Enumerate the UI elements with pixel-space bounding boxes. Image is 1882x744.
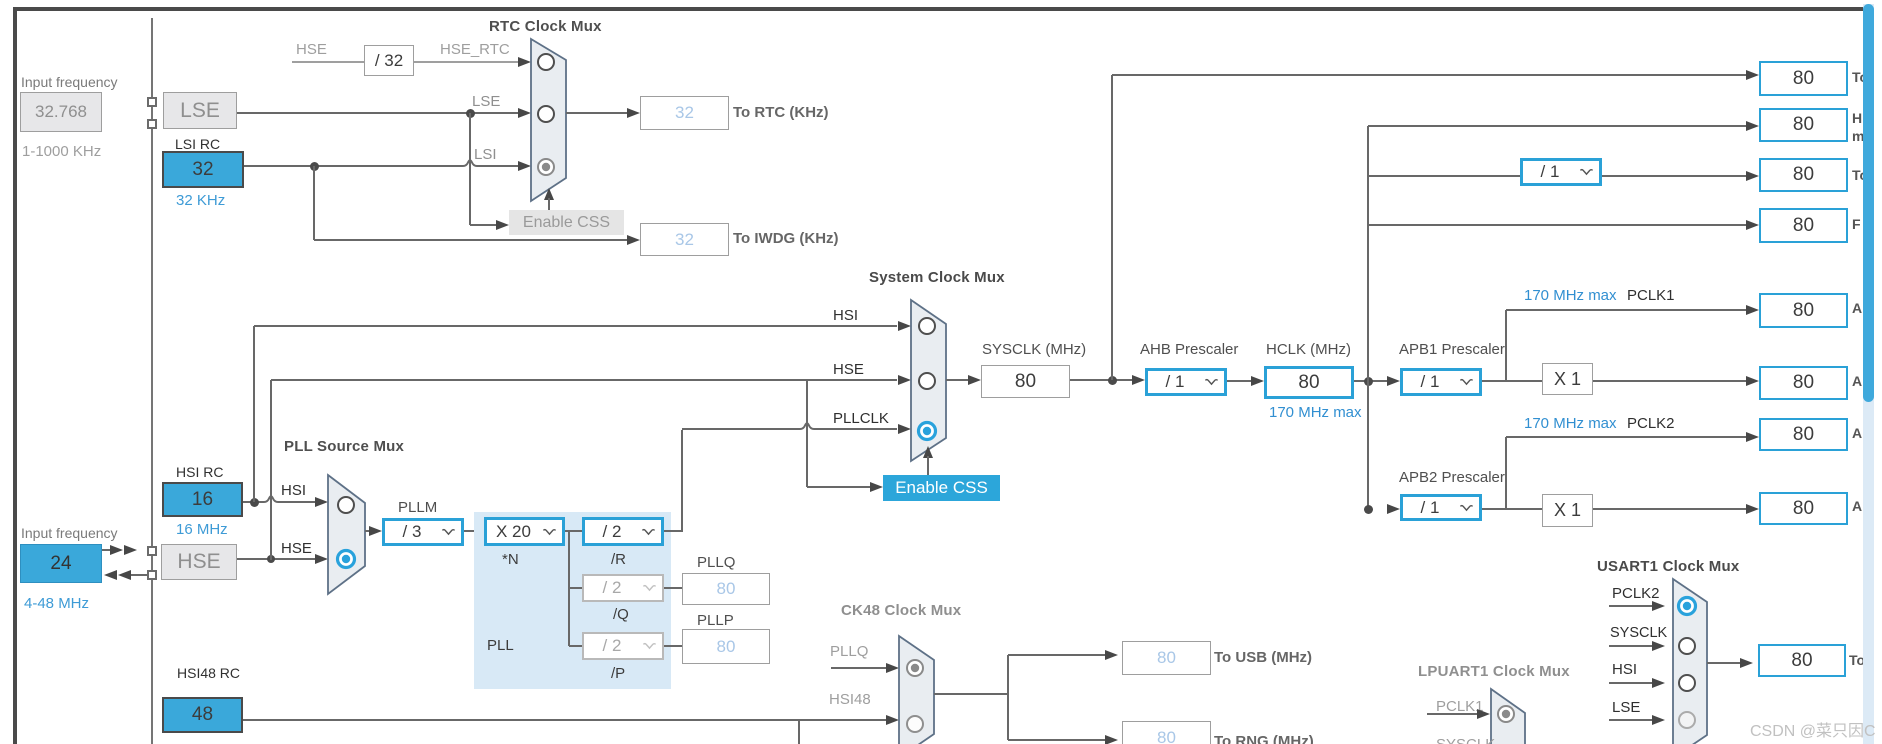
- wire PLLM to X20: [464, 530, 484, 532]
- wire /Q to PLLQ box: [664, 587, 682, 589]
- wire HSI out (right of hop): [278, 501, 316, 503]
- title RTC Clock Mux: [489, 18, 602, 35]
- wire pll mux out: [365, 530, 372, 532]
- arrowhead apb2 timer: [1746, 504, 1759, 514]
- label 1-1000 KHz: [22, 143, 101, 160]
- label usart truncated To: [1849, 652, 1865, 668]
- arrowhead HSI into usart mux: [1652, 678, 1665, 688]
- wire to RNG: [1008, 739, 1106, 741]
- arrowhead LSE into rtc mux: [518, 108, 531, 118]
- label Input frequency (HSE): [21, 525, 118, 541]
- wire AHB to HCLK: [1227, 380, 1252, 382]
- arrowhead HSI into pll mux: [315, 497, 328, 507]
- title CK48 Clock Mux: [841, 602, 961, 619]
- wire row3 left: [1368, 175, 1520, 177]
- arrowhead row3: [1746, 171, 1759, 181]
- arrowhead HSI into sys mux: [898, 321, 911, 331]
- arrowhead into APB1 prescaler: [1387, 376, 1400, 386]
- wire APB1 out: [1482, 380, 1542, 382]
- arrowhead enable css to sys mux: [923, 446, 933, 458]
- APB1 prescaler dropdown /1: [1400, 368, 1482, 396]
- label HSI48 ck48: [829, 691, 871, 708]
- connector square LSE b: [147, 119, 157, 129]
- To RTC value box: [640, 96, 729, 130]
- arrowhead PCLK2: [1746, 432, 1759, 442]
- arrowhead into USB box: [1105, 650, 1118, 660]
- PLLR dropdown /2: [582, 517, 664, 546]
- hop LSI over LSE branch: [463, 158, 477, 167]
- scrollbar track: [1863, 4, 1874, 744]
- wire SYSCLK out: [1070, 379, 1137, 381]
- label 170 MHz max pclk2: [1524, 415, 1617, 432]
- wire HSI48 branch down: [798, 720, 800, 744]
- LPUART1 clock mux shape: [1489, 687, 1527, 744]
- wire LSI to rtc mux (left of hop): [244, 165, 463, 167]
- label PLLQ ck48: [830, 643, 868, 660]
- arrowhead HSE into sys mux: [898, 375, 911, 385]
- label PLLP: [697, 612, 734, 629]
- arrowhead LSI into rtc mux: [518, 161, 531, 171]
- label /P: [611, 665, 625, 682]
- X1 box apb1 timer: [1542, 363, 1593, 395]
- arrowhead into PLLM: [369, 526, 382, 536]
- To USB value box: [1122, 641, 1211, 675]
- arrowhead into RNG box: [1105, 735, 1118, 744]
- divider /32 box: [364, 45, 414, 76]
- connector square HSE a: [147, 546, 157, 556]
- wire LSE branch to enable css: [470, 224, 501, 226]
- row3 value box: [1759, 158, 1848, 192]
- input frequency box 32.768: [20, 92, 102, 132]
- wire div32 to rtc mux: [414, 61, 519, 63]
- wire HSI48 to ck48 mux: [243, 719, 887, 721]
- wire X1 out apb2: [1593, 508, 1747, 510]
- label row4 truncated: [1852, 216, 1861, 232]
- double arrow right 2: [124, 545, 137, 555]
- label HSI wire pll: [281, 482, 306, 499]
- wire to enable css: [807, 486, 871, 488]
- APB1 timer value box: [1759, 366, 1848, 400]
- arrowhead into HCLK box: [1251, 376, 1264, 386]
- wire HCLK vertical: [1367, 126, 1369, 510]
- label apb1 timer truncated: [1852, 373, 1862, 389]
- label apb2 timer truncated: [1852, 498, 1862, 514]
- APB2 timer value box: [1759, 492, 1848, 525]
- wire SYSCLK up: [1111, 75, 1113, 380]
- label /R: [611, 551, 626, 568]
- wire HSE branch to enable css: [806, 380, 808, 487]
- wire LSI to rtc mux (right of hop): [477, 165, 519, 167]
- label row3 truncated: [1852, 167, 1868, 183]
- AHB prescaler dropdown /1: [1145, 368, 1227, 396]
- wire row4: [1368, 224, 1747, 226]
- title USART1 Clock Mux: [1597, 558, 1739, 575]
- label *N: [502, 551, 519, 568]
- wire 24 to HSE: [102, 549, 112, 551]
- label LSI wire: [474, 146, 497, 163]
- wire ck48 out: [934, 693, 1008, 695]
- wire sys mux out: [946, 379, 969, 381]
- wire to USB: [1008, 654, 1106, 656]
- label To RNG (MHz): [1214, 733, 1314, 744]
- wire LSE stub: [1609, 719, 1653, 721]
- canvas left border: [13, 7, 17, 744]
- label AHB Prescaler: [1140, 341, 1238, 358]
- label apb1 truncated: [1852, 300, 1862, 316]
- enable CSS active box: [883, 475, 1000, 501]
- label PLLQ: [697, 554, 735, 571]
- label HSI48 RC: [177, 665, 240, 681]
- To IWDG value box: [640, 223, 729, 256]
- APB2 prescaler dropdown /1: [1400, 494, 1482, 521]
- junction HSI: [250, 498, 259, 507]
- wire top row1: [1112, 74, 1747, 76]
- wire HSE to sys mux: [271, 379, 897, 381]
- wire LSE branch down: [469, 113, 471, 225]
- junction LSI: [310, 162, 319, 171]
- LSE source box: [163, 92, 237, 129]
- PLLP dropdown /2 (disabled): [582, 632, 664, 660]
- label 16 MHz: [176, 521, 228, 538]
- wire branch to /Q: [569, 587, 582, 589]
- row1 value box: [1759, 61, 1848, 96]
- PLLQ value box: [682, 573, 770, 605]
- wire rtc mux out: [566, 112, 628, 114]
- junction SYSCLK: [1108, 376, 1117, 385]
- label HSI RC: [176, 464, 223, 480]
- PCLK1 value box: [1759, 293, 1848, 328]
- arrowhead into SYSCLK box: [968, 375, 981, 385]
- arrowhead PLLCLK into sys mux: [898, 424, 911, 434]
- label PCLK1: [1627, 287, 1675, 304]
- wire PCLK1 stub lpuart: [1427, 713, 1478, 715]
- label HSE_RTC: [440, 41, 510, 58]
- HSI48 RC box 48: [162, 697, 243, 733]
- label To IWDG (KHz): [733, 230, 839, 247]
- connector square HSE b: [147, 570, 157, 580]
- wire PLLQ stub: [831, 667, 887, 669]
- label row1 truncated: [1852, 69, 1868, 85]
- junction LSE: [466, 109, 475, 118]
- hop PLLCLK over enable css branch: [800, 421, 814, 430]
- wire SYSCLK stub: [1609, 645, 1653, 647]
- label row2 truncated a: [1852, 110, 1862, 126]
- HSI RC box 16: [162, 482, 243, 517]
- wire HSE back to 24: [131, 574, 147, 576]
- HCLK value box: [1264, 366, 1354, 399]
- title LPUART1 Clock Mux: [1418, 663, 1570, 680]
- label HSI sys: [833, 307, 858, 324]
- label HSE (rtc path): [296, 41, 327, 58]
- label PLLM: [398, 499, 437, 516]
- arrowhead PCLK1: [1746, 305, 1759, 315]
- wire LSE to rtc mux: [237, 112, 519, 114]
- arrowhead row2: [1746, 121, 1759, 131]
- watermark CSDN: [1750, 717, 1876, 741]
- wire PCLK2 row: [1506, 436, 1747, 438]
- label HSE sys: [833, 361, 864, 378]
- wire HSE to div32: [292, 61, 364, 63]
- arrowhead apb1 timer: [1746, 376, 1759, 386]
- wire row3 right: [1602, 175, 1747, 177]
- PCLK2 value box: [1759, 418, 1848, 451]
- wire PLLCLK to sys mux (left of hop): [682, 428, 800, 430]
- wire PLLCLK to sys mux (right of hop): [814, 428, 897, 430]
- arrowhead PCLK1 into lpuart mux: [1477, 709, 1490, 719]
- junction HSE: [267, 555, 275, 563]
- PLLM dropdown /3: [382, 518, 464, 546]
- arrowhead LSE into usart mux: [1652, 715, 1665, 725]
- label HCLK (MHz): [1266, 341, 1351, 358]
- wire X20 to /R: [565, 530, 582, 532]
- wire HSI out (left of hop): [243, 501, 264, 503]
- arrowhead PLLQ into ck48: [886, 663, 899, 673]
- arrowhead SYSCLK into usart mux: [1652, 641, 1665, 651]
- double arrow left 2: [118, 570, 131, 580]
- label LSI RC: [175, 136, 220, 152]
- arrowhead HSE_RTC: [518, 57, 531, 67]
- arrowhead PCLK2 into usart mux: [1652, 601, 1665, 611]
- PLL region panel: [474, 512, 671, 689]
- label HSE wire pll: [281, 540, 312, 557]
- wire enable css up: [927, 456, 929, 475]
- label To USB (MHz): [1214, 649, 1312, 666]
- arrowhead HSE into pll mux: [315, 554, 328, 564]
- arrowhead enable css to rtc mux: [544, 188, 554, 200]
- scrollbar thumb: [1863, 4, 1874, 402]
- wire /R out: [664, 530, 683, 532]
- arrowhead into AHB prescaler: [1132, 375, 1145, 385]
- row2 value box: [1759, 108, 1848, 142]
- SYSCLK value box: [981, 365, 1070, 398]
- wire LSI to IWDG: [314, 239, 628, 241]
- label PCLK2: [1627, 415, 1675, 432]
- label 4-48 MHz: [24, 595, 89, 612]
- PLLN dropdown X20: [484, 517, 565, 546]
- label /Q: [613, 606, 629, 623]
- arrowhead into enable css rtc: [496, 220, 509, 230]
- title PLL Source Mux: [284, 438, 404, 455]
- arrowhead into enable css: [870, 482, 883, 492]
- label To RTC (KHz): [733, 104, 829, 121]
- arrowhead into IWDG box: [627, 235, 640, 245]
- label APB2 Prescaler: [1399, 469, 1505, 486]
- X1 box apb2 timer: [1542, 494, 1593, 527]
- input frequency box 24: [20, 544, 102, 583]
- label PLL: [487, 637, 514, 654]
- PLL source mux shape: [326, 473, 367, 596]
- label APB1 Prescaler: [1399, 341, 1505, 358]
- arrowhead row4: [1746, 220, 1759, 230]
- arrowhead row1: [1746, 70, 1759, 80]
- row4 value box: [1759, 208, 1848, 243]
- label 170 MHz max hclk: [1269, 404, 1362, 421]
- label pclk2 truncated: [1852, 425, 1862, 441]
- double arrow right 1: [110, 545, 123, 555]
- wire PCLK1 branch up: [1505, 310, 1507, 381]
- label PCLK2 usart: [1612, 585, 1660, 602]
- label 170 MHz max pclk1: [1524, 287, 1617, 304]
- wire HSI stub: [1609, 682, 1653, 684]
- enable CSS rtc (disabled): [509, 210, 624, 235]
- CK48 clock mux shape: [897, 634, 936, 744]
- wire LSI branch down: [313, 166, 315, 240]
- wire branch to /P: [569, 645, 582, 647]
- wire PLLCLK up: [681, 430, 683, 531]
- wire PCLK1 row: [1506, 309, 1747, 311]
- LSI RC box 32: [162, 151, 244, 188]
- label LSE usart: [1612, 699, 1640, 716]
- title System Clock Mux: [869, 269, 1005, 286]
- wire N to PQ branch: [568, 531, 570, 646]
- wire HSE out: [237, 558, 316, 560]
- arrowhead into usart value box: [1740, 658, 1753, 668]
- PLLP value box: [682, 629, 770, 664]
- connector square LSE a: [147, 97, 157, 107]
- wire X1 out apb1: [1593, 380, 1747, 382]
- wire ck48 split: [1007, 655, 1009, 740]
- double arrow left 1: [104, 570, 117, 580]
- label 32 KHz: [176, 192, 225, 209]
- wire HCLK out: [1354, 380, 1388, 382]
- wire APB2 out: [1482, 508, 1542, 510]
- USART1 value box: [1758, 644, 1846, 677]
- wire HSI up to sys mux: [253, 326, 255, 502]
- canvas top border: [13, 7, 1863, 11]
- label row2 truncated b: [1852, 128, 1864, 144]
- wire enable css up arrow: [548, 198, 550, 210]
- RTC clock mux shape: [529, 37, 568, 203]
- label SYSCLK (MHz): [982, 341, 1086, 358]
- peripheral rail: [151, 18, 153, 744]
- label SYSCLK usart: [1610, 625, 1667, 641]
- label LSE wire: [472, 93, 500, 110]
- hop HSI over HSE branch: [264, 494, 278, 503]
- junction APB2: [1364, 505, 1373, 514]
- cortex /1 dropdown: [1520, 158, 1602, 186]
- USART1 clock mux shape: [1671, 577, 1709, 744]
- label PCLK1 lpuart: [1436, 698, 1484, 715]
- wire HSE up to sys mux: [270, 380, 272, 560]
- PLLQ dropdown /2 (disabled): [582, 574, 664, 602]
- wire PCLK2 branch up: [1505, 437, 1507, 509]
- wire /P to PLLP box: [664, 645, 682, 647]
- wire HSI to sys mux: [254, 325, 897, 327]
- HSE source box: [161, 544, 237, 580]
- label HSI usart: [1612, 661, 1637, 678]
- wire usart mux out: [1707, 662, 1741, 664]
- system clock mux shape: [909, 298, 948, 463]
- label PLLCLK: [833, 410, 889, 427]
- arrowhead into APB2 prescaler: [1387, 504, 1400, 514]
- To RNG value box: [1122, 721, 1211, 744]
- wire PCLK2 stub: [1609, 605, 1653, 607]
- label SYSCLK lpuart: [1436, 736, 1495, 744]
- wire row2: [1368, 125, 1747, 127]
- label Input frequency (LSE): [21, 74, 118, 90]
- junction HCLK: [1364, 377, 1373, 386]
- arrowhead into To RTC box: [627, 108, 640, 118]
- arrowhead HSI48 into ck48 mux: [886, 715, 899, 725]
